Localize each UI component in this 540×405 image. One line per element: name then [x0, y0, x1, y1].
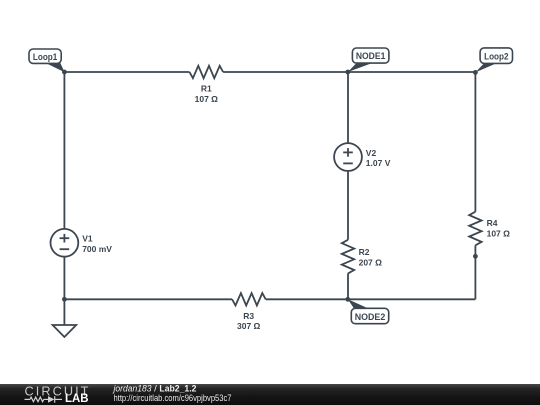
wire middle vertical lower (R2 to NODE2)	[347, 273, 349, 299]
CircuitLab logo symbol (resistor + diode wire)	[25, 396, 63, 403]
junction node at NODE1	[345, 70, 350, 75]
svg-text:V1: V1	[82, 234, 93, 244]
svg-text:NODE2: NODE2	[355, 312, 386, 323]
wire bottom-left horizontal (ground node to R3)	[64, 298, 232, 300]
svg-text:700 mV: 700 mV	[82, 244, 112, 254]
svg-text:207 Ω: 207 Ω	[359, 258, 383, 268]
wire left vertical upper (Loop1 to V1)	[63, 72, 65, 229]
junction node at NODE2	[345, 297, 350, 302]
svg-text:R3: R3	[243, 311, 254, 321]
wire bottom-right horizontal (R3 to bottom-right corner)	[266, 298, 476, 300]
svg-text:R1: R1	[201, 84, 212, 94]
node flag NODE1	[348, 48, 389, 72]
svg-text:Loop2: Loop2	[484, 51, 508, 62]
svg-text:R4: R4	[487, 218, 498, 228]
junction node at ground rail	[62, 297, 67, 302]
wire middle vertical (V2 to R2)	[347, 171, 349, 240]
svg-text:R2: R2	[359, 247, 370, 257]
svg-text:http://circuitlab.com/c96vpjbv: http://circuitlab.com/c96vpjbvp53c7	[114, 393, 232, 404]
wire right vertical upper (Loop2 corner to R4)	[474, 72, 476, 212]
wire middle vertical upper (NODE1 to V2)	[347, 72, 349, 143]
voltage source V1	[51, 229, 79, 257]
svg-text:107 Ω: 107 Ω	[487, 229, 511, 239]
resistor R3	[232, 293, 266, 305]
svg-text:LAB: LAB	[65, 393, 89, 405]
svg-text:307 Ω: 307 Ω	[237, 321, 261, 331]
ground	[53, 325, 77, 337]
footer bar	[0, 384, 540, 405]
svg-text:NODE1: NODE1	[356, 51, 386, 62]
resistor R1	[190, 66, 224, 78]
svg-text:V2: V2	[366, 148, 377, 158]
voltage source V2	[334, 143, 362, 171]
node flag Loop2	[475, 48, 512, 73]
junction node below R4	[473, 254, 478, 259]
node flag Loop1	[29, 49, 65, 72]
wire left vertical lower (V1 to bottom rail)	[63, 257, 65, 300]
node flag NODE2	[348, 299, 389, 323]
junction node at Loop2	[473, 70, 478, 75]
wire top-right horizontal (R1 to Loop2 corner)	[223, 71, 475, 73]
svg-text:107 Ω: 107 Ω	[195, 94, 219, 104]
wire right vertical lower (R4 to bottom rail)	[474, 245, 476, 299]
wire ground stem	[63, 299, 65, 325]
junction node at Loop1	[62, 70, 67, 75]
wire top-left horizontal (Loop1 node to R1)	[64, 71, 189, 73]
resistor R2	[342, 240, 354, 274]
svg-text:1.07 V: 1.07 V	[366, 158, 391, 168]
resistor R4	[469, 212, 481, 246]
svg-text:Loop1: Loop1	[33, 52, 58, 63]
